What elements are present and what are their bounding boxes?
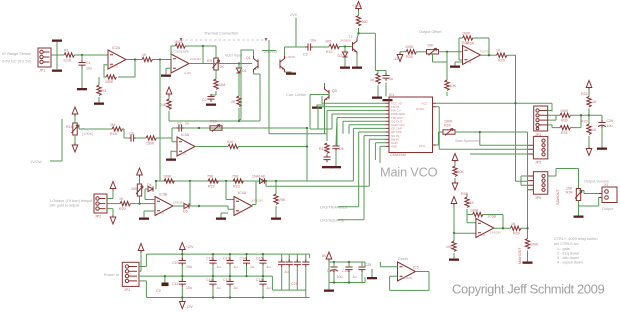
diode D4 branch	[145, 181, 156, 200]
wire R4 to U2	[152, 59, 171, 61]
capacitor C13	[223, 254, 238, 276]
svg-text:1M: 1M	[110, 123, 115, 127]
wire R11 to V+	[358, 10, 360, 16]
op-amp U8 output amp	[463, 42, 489, 65]
wire feedback to pot T1	[185, 46, 216, 64]
svg-text:121K: 121K	[63, 59, 72, 63]
wire U9 out	[494, 227, 511, 229]
wire C26 down	[601, 128, 603, 147]
svg-text:C6: C6	[339, 147, 344, 151]
wire U1 minus feedback	[104, 60, 135, 78]
junction trim node	[138, 202, 140, 204]
ground Q3	[312, 107, 322, 109]
supply arrow above trimpot T2	[72, 107, 78, 116]
svg-text:100K: 100K	[444, 120, 453, 124]
wire down diode chain	[238, 64, 240, 69]
supply arrow J2 up	[110, 182, 116, 191]
svg-text:C11: C11	[172, 282, 178, 286]
wire long vertical into J6	[516, 176, 528, 185]
wire R37 to fb	[467, 209, 473, 215]
wire R20 to opamp A	[130, 203, 155, 205]
trimpot T5 vertical	[131, 184, 143, 204]
wire cap branch	[589, 115, 602, 122]
wire U8 out	[481, 54, 497, 56]
svg-text:A-01: A-01	[479, 233, 486, 237]
wire junction to diode D2	[344, 47, 346, 53]
svg-text:3 - alto down: 3 - alto down	[557, 256, 579, 260]
wire D1 to R7	[238, 73, 240, 96]
connector J5 right mid	[528, 136, 548, 164]
svg-text:JP6: JP6	[535, 196, 541, 200]
svg-text:C25: C25	[365, 263, 372, 267]
IC U4 CEM3340 main VCO chip	[389, 93, 433, 157]
svg-text:C16: C16	[206, 278, 213, 282]
resistor R39 out	[511, 222, 521, 236]
wire R33 to arrow down	[588, 136, 590, 147]
svg-text:LFO/SQUARE: LFO/SQUARE	[320, 219, 345, 223]
capacitor C10	[172, 254, 192, 276]
resistor R27 drop	[445, 80, 457, 90]
svg-text:C21: C21	[291, 282, 298, 286]
svg-text:Q3: Q3	[332, 89, 337, 93]
svg-text:100K: 100K	[405, 45, 414, 49]
resistor R38 feedback	[470, 209, 483, 217]
junction rail j1	[164, 275, 166, 277]
wire J1 to R1	[51, 42, 64, 69]
svg-text:1K: 1K	[592, 100, 597, 104]
wire U5 plus input	[380, 262, 397, 267]
wire bus pin7	[349, 125, 386, 134]
svg-text:1N4148: 1N4148	[252, 175, 265, 179]
wire R27 end	[446, 92, 448, 96]
svg-text:24K: 24K	[160, 103, 167, 107]
connector J2 octave trim	[94, 194, 107, 219]
supply arrow down right col	[586, 147, 592, 156]
svg-text:Reset: Reset	[398, 257, 409, 261]
wire Q3 collector down	[324, 83, 326, 87]
junction U1 out	[134, 58, 136, 60]
svg-text:C26: C26	[607, 119, 614, 123]
svg-text:1n: 1n	[185, 122, 189, 126]
svg-text:R29: R29	[498, 59, 505, 63]
junction bus b2	[225, 180, 227, 182]
resistor R31	[560, 125, 570, 135]
wire T2 to arrow down	[74, 135, 76, 143]
wire IC pin right bottom to trimpot	[436, 132, 443, 145]
transistor Q1 matched pair left	[246, 56, 258, 72]
transistor Q4 current source	[340, 35, 357, 55]
svg-text:R10: R10	[326, 50, 333, 54]
svg-text:2V5: 2V5	[290, 13, 297, 17]
op-amp U9 out mix	[476, 215, 501, 238]
svg-text:R22: R22	[208, 185, 215, 189]
svg-text:10K: 10K	[450, 84, 457, 88]
svg-text:D5: D5	[183, 210, 188, 214]
capacitor C4	[382, 73, 393, 81]
transistor Q2 matched pair right	[280, 55, 295, 72]
capacitor C24 ref	[342, 262, 357, 283]
connector J6 right lower	[528, 172, 548, 200]
wire fine freq entry	[79, 129, 128, 138]
wire R40 ground	[527, 251, 529, 262]
output jack J7	[599, 183, 617, 203]
mid bus y181	[156, 180, 353, 182]
junction bus b4	[275, 180, 277, 182]
svg-text:A-01: A-01	[465, 60, 472, 64]
junction d5 out	[198, 205, 200, 207]
svg-text:2N3906: 2N3906	[340, 39, 351, 43]
svg-text:A-01: A-01	[158, 211, 165, 215]
wire J4 pins right	[548, 111, 560, 128]
svg-text:10u: 10u	[337, 275, 343, 279]
resistor R37 col2	[461, 192, 474, 207]
wire J2 mid to R20	[107, 203, 120, 205]
ground stem U8 plus	[450, 62, 462, 68]
svg-text:.1u: .1u	[233, 265, 238, 269]
ground U3 plus	[166, 159, 176, 161]
supply V+ arrow rail	[180, 243, 195, 255]
capacitor C14	[240, 254, 255, 276]
wire Q1 emitter down	[254, 72, 261, 121]
wire R30 R31 join	[570, 115, 589, 127]
ground pot	[574, 216, 584, 218]
svg-text:Output: Output	[602, 207, 614, 211]
svg-text:100K: 100K	[163, 175, 172, 179]
svg-text:.1u: .1u	[266, 286, 271, 290]
bottom power rail	[146, 297, 309, 299]
junction int top	[238, 120, 240, 122]
op-amp U1 buffer	[108, 46, 126, 69]
resistor R25 drop	[274, 181, 286, 204]
resistor R5 feedback 1K04	[174, 40, 185, 48]
resistor R30	[560, 109, 570, 123]
svg-text:R13: R13	[319, 147, 326, 151]
junction bus b3	[265, 180, 267, 182]
wire feedback right	[473, 38, 490, 55]
capacitor C22 right group	[302, 254, 309, 297]
svg-text:360: 360	[362, 20, 368, 24]
resistor R16 fine	[110, 123, 122, 136]
wire C8 to R17	[136, 137, 146, 139]
svg-text:IC6B: IC6B	[488, 215, 497, 219]
supply arrow above T5	[137, 168, 143, 177]
wire trimpot right	[455, 132, 528, 164]
ground flag above J1	[52, 40, 62, 42]
svg-text:IC2A: IC2A	[112, 46, 121, 50]
top power rail	[146, 253, 309, 255]
ground U6	[139, 218, 149, 220]
wire C3 to R10	[313, 46, 329, 48]
trimpot T1 vertical	[207, 58, 224, 70]
diode D1	[236, 68, 246, 73]
wire U2 out to Q pair base	[189, 63, 252, 65]
svg-text:C12: C12	[206, 257, 213, 261]
svg-text:.1u: .1u	[249, 265, 254, 269]
svg-text:Curr. Limiter: Curr. Limiter	[286, 93, 307, 97]
svg-text:JP5: JP5	[535, 161, 541, 165]
junction cap line	[198, 127, 200, 129]
wire T5 top	[139, 177, 141, 185]
svg-text:910: 910	[227, 140, 233, 144]
svg-text:(100K): (100K)	[82, 132, 94, 136]
wire pot wiper to jack	[582, 191, 602, 194]
wire C1 to ground	[81, 68, 83, 88]
resistor R7	[231, 96, 241, 106]
resistor R35	[453, 163, 465, 177]
wire U2 plus to ground	[166, 68, 171, 74]
wire cap line	[172, 127, 307, 129]
svg-text:D2: D2	[338, 54, 343, 58]
svg-text:Fine: Fine	[82, 128, 89, 132]
supply arrow integrator V+	[166, 87, 172, 96]
svg-text:LM311N: LM311N	[401, 276, 412, 280]
wire Q4 emitter to ground	[356, 55, 358, 67]
supply arrow right chain1 down	[452, 181, 458, 190]
svg-text:R28: R28	[462, 41, 469, 45]
supply arrow down offset	[393, 53, 403, 62]
wire J3 pins to rails	[139, 254, 165, 297]
decoupling rail connector J3	[122, 262, 139, 292]
wire Q3 base left	[310, 94, 329, 96]
wire R35 down	[454, 178, 456, 181]
capacitor C8	[128, 132, 136, 142]
wire out to long vertical	[507, 55, 516, 181]
ground under R3	[94, 103, 104, 105]
svg-text:JP2: JP2	[95, 215, 101, 219]
svg-text:4 - expon down: 4 - expon down	[557, 261, 583, 265]
node A junction	[81, 54, 83, 56]
svg-text:R1: R1	[64, 49, 69, 53]
svg-text:1V/Oct: 1V/Oct	[30, 160, 43, 164]
capacitor C5 under R13	[323, 154, 330, 162]
svg-text:10u: 10u	[186, 286, 192, 290]
resistor R22 on bus	[207, 175, 218, 189]
svg-text:Vctrl Input: Vctrl Input	[225, 54, 243, 58]
svg-text:10K: 10K	[446, 245, 453, 249]
ground under C1	[77, 88, 87, 90]
resistor R23 on bus	[232, 175, 243, 189]
wire R3 ground	[98, 97, 100, 103]
svg-text:C8: C8	[129, 132, 134, 136]
resistor R36	[446, 233, 456, 251]
wire Q2 collector up to 47	[285, 47, 297, 56]
svg-text:LFO/TRIANGLE: LFO/TRIANGLE	[320, 206, 348, 210]
tantalum C9	[156, 276, 169, 293]
wire D2 to ground	[344, 57, 346, 67]
junction chain2	[453, 232, 455, 234]
svg-text:C10: C10	[172, 261, 179, 265]
trimpot T6 offset	[427, 44, 439, 56]
wire waveform lines	[439, 132, 527, 154]
trimpot T3 saw symmetry	[443, 120, 455, 136]
wire integrator top line	[169, 120, 260, 122]
wire loop vertical x307	[306, 128, 308, 181]
wire LFO square stub	[338, 219, 364, 221]
svg-text:TL072: TL072	[480, 50, 489, 54]
wire 2V5 vertical	[296, 18, 308, 48]
capacitor C1	[78, 60, 92, 71]
IC left pin stubs	[386, 103, 390, 146]
junction right col	[588, 114, 590, 116]
svg-text:1-Octave (10 turn) trimpot: 1-Octave (10 turn) trimpot	[49, 199, 93, 203]
svg-text:75K: 75K	[279, 198, 286, 202]
svg-text:R32: R32	[581, 92, 588, 96]
op-amp U6 scale amp	[155, 193, 184, 216]
ground R25	[271, 218, 281, 220]
resistor R33	[581, 120, 597, 135]
supply arrow down under T2	[72, 143, 78, 152]
wire Q2 emitter to ground	[285, 71, 292, 74]
junction vert	[526, 227, 528, 229]
junction loop	[306, 145, 308, 147]
junction cross	[514, 102, 516, 104]
svg-text:TL072: TL072	[110, 65, 119, 69]
connector J4 right top	[534, 106, 548, 137]
svg-text:R37: R37	[461, 192, 468, 196]
capacitor C6 column	[332, 143, 343, 151]
svg-text:R15: R15	[210, 120, 217, 124]
resistor R20	[119, 197, 130, 211]
wire bus pin10	[364, 136, 386, 220]
svg-text:150K: 150K	[146, 142, 155, 146]
svg-text:1K: 1K	[119, 197, 124, 201]
op-amp U7	[234, 191, 263, 216]
svg-text:2 - freq down: 2 - freq down	[557, 252, 579, 256]
wire bus pin13	[380, 146, 386, 163]
junction D4	[155, 180, 157, 182]
ground U7	[216, 218, 226, 220]
svg-text:1n: 1n	[389, 77, 393, 81]
svg-text:A Compare: A Compare	[170, 50, 189, 54]
junction base node	[344, 45, 346, 47]
ground under C6	[331, 166, 341, 168]
wire offset in	[400, 51, 406, 54]
resistor R1 121K	[63, 49, 74, 63]
svg-text:5V: 5V	[322, 254, 327, 258]
svg-text:A-01: A-01	[180, 152, 187, 156]
wire J2 pin1	[107, 191, 113, 199]
capacitor C26 polarized	[598, 119, 613, 128]
junction ref	[333, 261, 350, 284]
wire T1 to R6	[215, 70, 217, 79]
svg-text:A-3046: A-3046	[285, 55, 295, 59]
svg-text:10u: 10u	[607, 124, 613, 128]
resistor R17	[146, 136, 156, 146]
wire fb loop	[467, 215, 503, 229]
IC right pin stubs	[433, 103, 437, 145]
wire U5 feedback loop	[390, 272, 429, 291]
junction rail j2	[212, 253, 264, 299]
supply V+ arrow top	[352, 2, 361, 11]
svg-text:Copyright Jeff Schmidt 2009: Copyright Jeff Schmidt 2009	[452, 282, 604, 297]
svg-text:C24: C24	[342, 269, 349, 273]
svg-text:1K8: 1K8	[219, 83, 225, 87]
wire R32 to node	[588, 109, 590, 125]
svg-text:R26: R26	[406, 55, 413, 59]
svg-text:SAWOUT: SAWOUT	[556, 189, 560, 205]
thermal line end tick right	[265, 38, 268, 42]
svg-text:JP1: JP1	[39, 69, 45, 73]
ground below J1	[52, 70, 62, 72]
svg-text:JP3: JP3	[124, 288, 130, 292]
svg-text:100K: 100K	[462, 32, 471, 36]
svg-text:0-5V DC (0-2.5V): 0-5V DC (0-2.5V)	[2, 60, 32, 64]
diode D5	[183, 203, 189, 213]
svg-text:R31: R31	[561, 131, 568, 135]
resistor R26 offset	[405, 45, 416, 59]
svg-text:1K: 1K	[592, 128, 597, 132]
svg-text:100K: 100K	[560, 109, 569, 113]
svg-text:LF412N: LF412N	[190, 57, 201, 61]
wire pot bottom to ground	[579, 198, 599, 216]
capacitor C19 right group	[278, 254, 288, 290]
ground Q2 emitter	[286, 73, 296, 75]
resistor R4	[142, 53, 152, 62]
svg-text:A-01: A-01	[237, 210, 244, 214]
wire U3 out to R19	[195, 146, 228, 148]
svg-text:10u: 10u	[310, 39, 316, 43]
junction node B	[159, 58, 161, 60]
wire bus pin9	[359, 132, 386, 207]
wire node A down to C1	[81, 55, 83, 62]
ground under C2	[206, 104, 216, 106]
wire pot to opamp U8	[439, 51, 463, 53]
svg-text:-12V: -12V	[393, 57, 401, 61]
junction rails	[181, 253, 183, 299]
resistor R32	[581, 90, 597, 107]
svg-text:1K: 1K	[496, 49, 501, 53]
wire bus pin3	[327, 110, 386, 141]
svg-text:+12V: +12V	[352, 4, 361, 8]
junction diode node	[238, 62, 240, 64]
svg-text:10K: 10K	[131, 187, 138, 191]
diode D3 on bus	[252, 175, 265, 184]
wire R26 to pot	[416, 51, 427, 53]
capacitor C18 bottom	[256, 276, 271, 297]
svg-text:LF412N: LF412N	[490, 231, 501, 235]
resistor R10	[325, 40, 339, 55]
wire R36 ground	[453, 253, 455, 259]
net stub label left	[30, 119, 62, 164]
wire between Q1 Q2 bases	[262, 40, 327, 134]
wire J6 right to volume pot	[548, 169, 579, 189]
wire R6 to C2	[211, 91, 216, 97]
trimpot T2 freq fine	[66, 116, 79, 135]
svg-text:1K: 1K	[142, 53, 147, 57]
svg-text:Saw Symmetry: Saw Symmetry	[455, 139, 481, 143]
wire U3 plus to ground	[171, 151, 177, 158]
wire J2 pin3	[107, 209, 113, 215]
capacitor C12	[206, 254, 221, 276]
svg-text:Q1: Q1	[246, 56, 251, 60]
wire RC pair top	[375, 71, 386, 76]
wire Q3 emitter to ground	[317, 103, 325, 134]
svg-text:IC5: IC5	[413, 266, 419, 270]
ground R36	[449, 259, 459, 261]
resistor R11 top	[356, 16, 367, 26]
svg-text:R24: R24	[444, 124, 451, 128]
svg-text:C18: C18	[256, 278, 263, 282]
svg-text:1 - gate: 1 - gate	[557, 247, 570, 251]
svg-text:X1: X1	[604, 183, 608, 187]
svg-text:C14: C14	[240, 257, 247, 261]
wire rail ends	[309, 254, 311, 258]
svg-text:2K: 2K	[231, 100, 236, 104]
svg-text:R34: R34	[566, 191, 573, 195]
svg-text:1K: 1K	[470, 201, 475, 205]
svg-text:10K: 10K	[458, 170, 465, 174]
reference supply arrow	[322, 252, 332, 261]
